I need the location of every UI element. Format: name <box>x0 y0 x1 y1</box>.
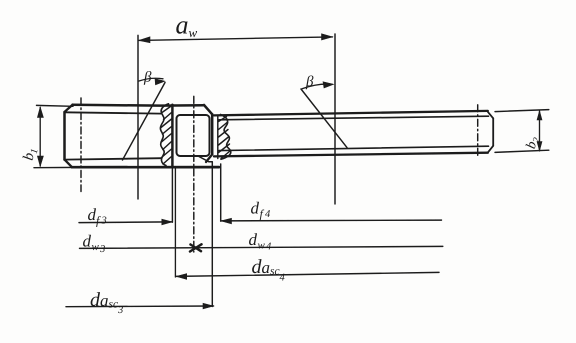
svg-text:4: 4 <box>266 242 272 253</box>
svg-text:β: β <box>305 74 314 90</box>
svg-text:a: a <box>262 258 271 277</box>
svg-text:4: 4 <box>265 209 271 220</box>
svg-text:3: 3 <box>117 305 123 316</box>
svg-text:a: a <box>100 291 109 310</box>
svg-text:w: w <box>189 25 198 40</box>
svg-text:a: a <box>176 11 189 40</box>
svg-text:w: w <box>258 240 266 252</box>
svg-text:3: 3 <box>101 216 107 227</box>
svg-text:d: d <box>83 232 92 251</box>
svg-text:d: d <box>251 199 260 218</box>
svg-text:4: 4 <box>280 273 286 284</box>
svg-text:w: w <box>92 241 100 253</box>
svg-text:β: β <box>143 70 152 86</box>
svg-text:d: d <box>249 230 258 249</box>
svg-text:3: 3 <box>99 244 105 255</box>
